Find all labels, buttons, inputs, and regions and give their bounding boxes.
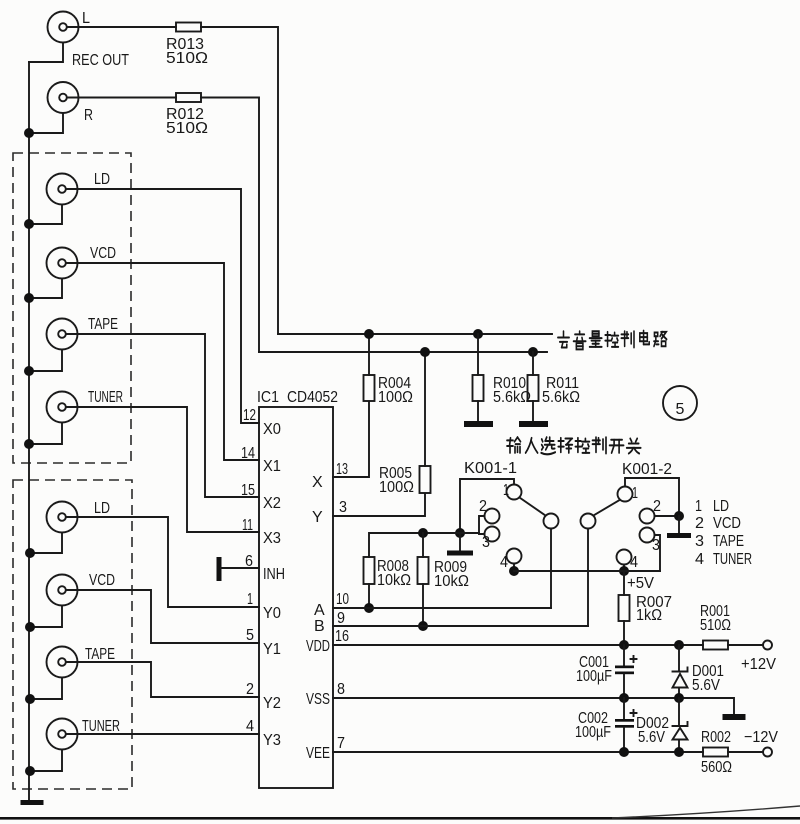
svg-text:A: A xyxy=(314,602,325,619)
svg-text:CD4052: CD4052 xyxy=(287,389,338,406)
wire R011 bottom to ground xyxy=(532,401,534,421)
junction VSS D001 xyxy=(674,693,684,703)
wire VDD pin16 xyxy=(333,644,703,646)
bus A-B pullup ground xyxy=(369,533,479,557)
wire C001 to VSS xyxy=(623,674,625,698)
svg-text:Y0: Y0 xyxy=(263,605,281,622)
svg-text:TAPE: TAPE xyxy=(713,533,744,550)
RCA jack TAPE group2 xyxy=(47,646,116,678)
svg-text:B: B xyxy=(314,618,325,635)
K001-2 wiper to B line xyxy=(587,529,589,627)
svg-text:X2: X2 xyxy=(263,495,281,512)
terminal +12V xyxy=(763,641,772,650)
wire B pin9 xyxy=(333,625,588,627)
svg-text:VCD: VCD xyxy=(90,245,116,262)
svg-text:Y1: Y1 xyxy=(263,641,281,658)
svg-text:100Ω: 100Ω xyxy=(379,479,414,496)
ground symbol bottom xyxy=(21,800,44,805)
svg-text:+5V: +5V xyxy=(627,575,654,592)
svg-text:4: 4 xyxy=(246,718,254,735)
svg-text:5.6kΩ: 5.6kΩ xyxy=(493,389,531,406)
junction K001-2 ground node xyxy=(674,511,684,521)
K001-1 wiper arm xyxy=(520,498,546,516)
RCA jack L xyxy=(48,10,91,43)
wire D001 to VSS xyxy=(678,688,680,699)
dashed box group 1 xyxy=(13,153,131,463)
junction K001-1 contact4 xyxy=(509,566,519,576)
svg-text:510Ω: 510Ω xyxy=(700,617,731,634)
wire TAPE1 ground stub xyxy=(29,350,62,372)
resistor R004 xyxy=(364,375,375,401)
INH terminal bar xyxy=(217,557,222,581)
wire R jack to R012 xyxy=(67,97,176,99)
wire VEE pin7 xyxy=(333,751,703,753)
wire TUNER2 ground stub xyxy=(30,750,62,772)
wire VCD1 to X1 pin14 xyxy=(66,263,259,460)
wire LD2 to Y0 pin1 xyxy=(66,517,259,607)
wire TAPE2 ground stub xyxy=(30,678,62,700)
svg-text:1: 1 xyxy=(247,591,253,608)
wire R011 top xyxy=(532,352,534,375)
svg-text:16: 16 xyxy=(335,628,349,645)
junction LD1 ground xyxy=(24,219,34,229)
wire R002 to -12V terminal xyxy=(728,751,763,753)
wire LD1 to X0 pin12 xyxy=(66,189,259,423)
svg-text:Y3: Y3 xyxy=(263,732,281,749)
wire R012 to lower bus corner xyxy=(201,98,259,353)
svg-text:560Ω: 560Ω xyxy=(701,759,732,776)
op-amp-style IC U1 CD4052 body xyxy=(259,407,333,788)
svg-text:2: 2 xyxy=(479,498,487,515)
wire L jack to R013 xyxy=(67,26,176,28)
ground VSS xyxy=(723,714,746,720)
wire VCD2 to Y1 pin5 xyxy=(66,590,259,643)
svg-text:100µF: 100µF xyxy=(575,724,611,741)
svg-text:1kΩ: 1kΩ xyxy=(636,607,662,624)
wire R010 bottom to ground xyxy=(477,401,479,421)
svg-text:11: 11 xyxy=(242,517,253,534)
svg-text:3: 3 xyxy=(695,533,704,550)
svg-text:LD: LD xyxy=(94,500,110,517)
junction R009 on B line xyxy=(418,621,428,631)
wire VDD to D001 xyxy=(678,645,680,672)
wire INH pin6 xyxy=(221,567,259,569)
wire X pin13 to R004 xyxy=(333,402,369,477)
K001-1 contact4 stub xyxy=(513,564,515,572)
RCA jack TUNER group2 xyxy=(47,718,121,750)
wire R005 top to lower bus xyxy=(424,352,426,466)
svg-text:2: 2 xyxy=(246,681,254,698)
resistor R007 xyxy=(619,595,630,621)
wire TAPE2 to Y2 pin2 xyxy=(66,662,259,697)
svg-text:TUNER: TUNER xyxy=(88,389,123,406)
RCA jack R xyxy=(48,82,94,124)
svg-text:TUNER: TUNER xyxy=(82,718,120,735)
svg-text:LD: LD xyxy=(94,171,110,188)
K001-1 top bracket xyxy=(460,479,514,533)
svg-text:1: 1 xyxy=(695,498,702,515)
K001-2 contact 3 xyxy=(640,528,655,543)
svg-text:X0: X0 xyxy=(263,421,281,438)
junction TAPE1 ground xyxy=(24,366,34,376)
svg-text:VCD: VCD xyxy=(713,515,741,532)
svg-text:−12V: −12V xyxy=(744,729,778,746)
resistor R010 xyxy=(473,375,484,401)
svg-text:R: R xyxy=(84,107,93,124)
text shuru xuanze kongzhi kaiguan xyxy=(507,437,641,454)
junction R010 upper bus xyxy=(473,329,483,339)
junction R005 lower bus xyxy=(420,347,430,357)
junction VCD2 ground xyxy=(25,622,35,632)
svg-text:VDD: VDD xyxy=(306,638,330,655)
circled number 5 xyxy=(663,386,697,420)
K001-2 wiper xyxy=(581,514,596,529)
svg-text:12: 12 xyxy=(243,407,256,424)
terminal -12V xyxy=(763,748,772,757)
svg-text:10kΩ: 10kΩ xyxy=(434,573,469,590)
K001-2 ground stub xyxy=(678,516,680,533)
wire R009 bottom to B xyxy=(422,584,424,626)
junction R011 lower bus xyxy=(528,347,538,357)
svg-text:5: 5 xyxy=(676,401,685,418)
junction VEE D002 xyxy=(674,747,684,757)
svg-text:9: 9 xyxy=(337,610,345,627)
ground bus xyxy=(28,62,30,800)
svg-text:1: 1 xyxy=(503,482,509,499)
wire TAPE1 to X2 pin15 xyxy=(66,334,259,497)
+5V node line xyxy=(514,570,660,572)
wire TUNER1 to X3 pin11 xyxy=(66,407,259,532)
wire VSS pin8 xyxy=(333,698,734,714)
capacitor C001 plates xyxy=(615,656,637,674)
wire C002 to VEE xyxy=(623,728,625,752)
K001-1 contact 4 xyxy=(507,549,522,564)
wire R008 bottom to A xyxy=(368,584,370,608)
K001-1 contact 2 xyxy=(485,509,500,524)
svg-text:3: 3 xyxy=(482,534,490,551)
svg-text:1: 1 xyxy=(632,485,638,502)
junction VEE C002 xyxy=(619,747,629,757)
wire D002 to VEE xyxy=(678,740,680,753)
wire TUNER1 ground stub xyxy=(29,423,62,445)
capacitor C002 plates xyxy=(615,710,637,728)
resistor R002 xyxy=(703,748,728,757)
junction VCD1 ground xyxy=(24,293,34,303)
resistor R011 xyxy=(528,375,539,401)
svg-text:X3: X3 xyxy=(263,530,281,547)
wire R jack ground stub xyxy=(29,113,63,133)
K001-1 wiper xyxy=(544,514,559,529)
RCA jack LD group1 xyxy=(47,171,111,205)
K001-2 top bracket xyxy=(625,478,679,516)
K001-1 contacts 2-3 bracket xyxy=(479,516,485,534)
svg-text:5.6V: 5.6V xyxy=(638,729,665,746)
wire LD2 ground stub xyxy=(30,533,62,554)
K001-1 contact 1 xyxy=(507,485,522,500)
wire VSS to D002 xyxy=(678,698,680,726)
resistor R009 xyxy=(418,557,429,584)
RCA jack TUNER group1 xyxy=(47,389,124,423)
junction LD2 ground xyxy=(25,548,35,558)
svg-text:LD: LD xyxy=(713,498,729,515)
svg-text:X1: X1 xyxy=(263,458,281,475)
svg-text:K001-2: K001-2 xyxy=(622,461,672,478)
svg-text:14: 14 xyxy=(241,445,255,462)
upper bus to volume ctrl xyxy=(278,333,552,335)
svg-text:100µF: 100µF xyxy=(576,668,612,685)
K001-2 contact 2 xyxy=(640,509,655,524)
junction TAPE2 ground xyxy=(25,694,35,704)
wire R010 top xyxy=(477,334,479,375)
scan page curve bottom right xyxy=(612,806,800,818)
K001-1 wiper to A line xyxy=(550,529,552,609)
svg-text:L: L xyxy=(82,10,90,27)
svg-text:8: 8 xyxy=(337,681,345,698)
junction VSS C001 xyxy=(619,693,629,703)
ground R010 xyxy=(464,421,493,427)
junction grounded bus K001-1 xyxy=(455,528,465,538)
wire LD1 ground stub xyxy=(29,205,62,225)
svg-text:5.6kΩ: 5.6kΩ xyxy=(542,389,580,406)
wire R007 to VDD line xyxy=(623,621,625,645)
wire R004 top to upper bus xyxy=(368,334,370,375)
svg-text:5.6V: 5.6V xyxy=(692,677,720,694)
wire VCD1 ground stub xyxy=(29,279,62,299)
wire TUNER2 to Y3 pin4 xyxy=(66,733,259,735)
ground R011 xyxy=(519,421,548,427)
lower bus to volume ctrl xyxy=(259,351,547,353)
wire L jack ground stub xyxy=(29,43,63,63)
svg-text:+12V: +12V xyxy=(741,656,776,673)
svg-text:7: 7 xyxy=(337,735,345,752)
resistor R001 xyxy=(703,641,728,650)
svg-text:4: 4 xyxy=(630,554,638,571)
junction VDD D001 xyxy=(674,640,684,650)
wire +5V to R007 xyxy=(623,571,625,595)
svg-text:13: 13 xyxy=(336,461,348,478)
svg-text:3: 3 xyxy=(652,537,660,554)
wire Y pin3 to R005 xyxy=(333,494,425,516)
RCA jack VCD group1 xyxy=(47,245,117,279)
wire A pin10 xyxy=(333,607,551,609)
svg-text:VEE: VEE xyxy=(306,745,330,762)
svg-text:2: 2 xyxy=(695,515,704,532)
wire VDD to C001 xyxy=(623,645,625,666)
resistor R008 xyxy=(364,557,375,584)
junction R ground xyxy=(24,128,34,138)
diode D001 zener xyxy=(673,668,688,688)
junction VDD R007 xyxy=(619,640,629,650)
resistor R005 xyxy=(420,466,431,493)
RCA jack TAPE group1 xyxy=(47,316,119,350)
K001-2 contact4 stub xyxy=(623,565,625,572)
page bottom border line xyxy=(0,817,800,820)
wire R001 to +12V terminal xyxy=(728,644,763,646)
K001-2 contact2 stub xyxy=(655,515,680,517)
svg-text:REC OUT: REC OUT xyxy=(72,52,129,69)
RCA jack LD group2 xyxy=(47,500,111,533)
svg-text:X: X xyxy=(312,474,323,491)
K001-2 contact3 bracket xyxy=(655,535,661,571)
K001-2 wiper arm xyxy=(594,500,620,516)
K001-2 contact 4 xyxy=(617,550,632,565)
dashed box group 2 xyxy=(13,480,132,789)
svg-text:2: 2 xyxy=(653,498,661,515)
svg-text:510Ω: 510Ω xyxy=(166,50,208,67)
junction TUNER2 ground xyxy=(25,766,35,776)
svg-text:10kΩ: 10kΩ xyxy=(377,572,411,589)
junction R004 upper bus xyxy=(364,329,374,339)
resistor R013 xyxy=(176,23,201,32)
ground K001-1 xyxy=(447,551,473,556)
junction TUNER1 ground xyxy=(24,439,34,449)
junction K001-2 contact4 +5V xyxy=(619,566,629,576)
ground K001-2 xyxy=(667,533,691,538)
svg-text:TAPE: TAPE xyxy=(85,646,115,663)
svg-text:K001-1: K001-1 xyxy=(464,460,517,477)
svg-text:Y2: Y2 xyxy=(263,695,281,712)
junction R009 top xyxy=(418,528,428,538)
svg-text:3: 3 xyxy=(339,499,347,516)
svg-text:10: 10 xyxy=(336,591,349,608)
svg-text:TUNER: TUNER xyxy=(713,551,752,568)
text qu yinliang kongzhi dianlu xyxy=(558,331,667,350)
svg-text:Y: Y xyxy=(312,509,323,526)
junction R008 on A line xyxy=(364,603,374,613)
RCA jack VCD group2 xyxy=(47,572,116,606)
K001-1 contact 3 xyxy=(485,527,500,542)
K001-1 ground stub xyxy=(459,533,461,551)
svg-text:VCD: VCD xyxy=(89,572,115,589)
K001-2 contact 1 xyxy=(618,487,633,502)
resistor R012 xyxy=(176,93,201,102)
svg-text:5: 5 xyxy=(246,627,254,644)
svg-text:510Ω: 510Ω xyxy=(166,120,208,137)
svg-text:TAPE: TAPE xyxy=(88,316,118,333)
svg-text:VSS: VSS xyxy=(306,691,330,708)
wire VSS to C002 xyxy=(623,698,625,719)
wire R009 top stub xyxy=(422,533,424,557)
svg-text:15: 15 xyxy=(241,482,255,499)
svg-text:IC1: IC1 xyxy=(257,389,279,406)
svg-text:INH: INH xyxy=(263,566,285,583)
svg-text:4: 4 xyxy=(695,551,704,568)
diode D002 zener xyxy=(673,722,688,740)
svg-text:4: 4 xyxy=(500,554,508,571)
wire R013 to upper bus corner xyxy=(201,27,278,334)
svg-text:100Ω: 100Ω xyxy=(378,389,413,406)
wire VCD2 ground stub xyxy=(30,606,62,628)
svg-text:R002: R002 xyxy=(701,729,731,746)
